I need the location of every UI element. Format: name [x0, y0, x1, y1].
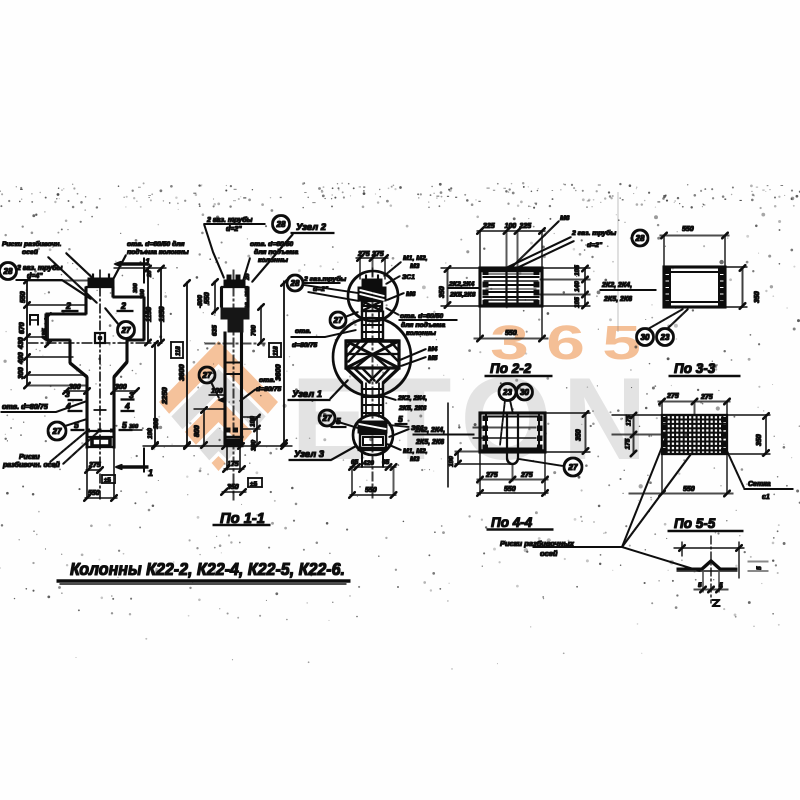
- svg-text:d=2": d=2": [587, 242, 603, 249]
- svg-text:Риски: Риски: [19, 454, 40, 461]
- svg-text:550: 550: [682, 226, 694, 233]
- cage upper hatched block uzel2: [358, 287, 386, 301]
- cage centerline: [372, 268, 374, 500]
- view2 centerline: [233, 270, 235, 500]
- view1 top cap journal: [88, 278, 114, 287]
- svg-text:±5: ±5: [104, 477, 111, 484]
- svg-text:5: 5: [122, 420, 127, 430]
- svg-text:отв. d=60/50 для: отв. d=60/50 для: [127, 240, 185, 248]
- svg-text:1: 1: [148, 468, 153, 478]
- svg-text:100: 100: [245, 302, 251, 312]
- svg-text:d=80/75: d=80/75: [256, 386, 281, 393]
- view1 callout circle 28: [0, 263, 17, 280]
- section 5-5 bottom dim 550: [629, 493, 733, 495]
- section 2-2 left dim 350: [447, 268, 449, 306]
- svg-text:28: 28: [290, 279, 300, 288]
- cage corbel box: [346, 341, 399, 368]
- view1 callout circle 27 head: [118, 322, 135, 339]
- svg-text:350: 350: [576, 429, 583, 441]
- view1 section mark 1 top: [122, 263, 148, 265]
- svg-text:100: 100: [448, 456, 455, 467]
- svg-text:ЗС1: ЗС1: [402, 274, 415, 281]
- leader fan to sections: [622, 437, 666, 547]
- section 2-2 rebar squares: [483, 270, 488, 275]
- svg-text:550: 550: [204, 292, 211, 304]
- svg-text:3600: 3600: [177, 363, 186, 381]
- svg-text:Сетка: Сетка: [748, 481, 771, 488]
- svg-text:400: 400: [18, 352, 25, 365]
- section 4-4 leader lines from labels: [473, 427, 536, 429]
- section 2-2 top dims: [477, 230, 545, 232]
- section 4-4 right dim 350: [585, 413, 587, 452]
- section 3-3 rebar squares: [666, 269, 671, 274]
- svg-text:100: 100: [505, 223, 517, 230]
- svg-text:разбивочн. осей: разбивочн. осей: [2, 461, 61, 469]
- svg-text:23: 23: [502, 388, 512, 397]
- svg-text:27: 27: [121, 326, 131, 335]
- svg-text:М1, М2,: М1, М2,: [403, 448, 428, 455]
- svg-text:550: 550: [683, 486, 695, 493]
- svg-text:23: 23: [660, 333, 670, 342]
- svg-text:d=2": d=2": [313, 286, 329, 293]
- section 4-4 callout circle 27: [564, 458, 582, 476]
- svg-text:28: 28: [276, 220, 286, 229]
- svg-text:d=2": d=2": [226, 226, 242, 233]
- view1 tolerance box: [102, 475, 115, 483]
- svg-text:2250: 2250: [160, 386, 169, 405]
- svg-text:отв. d=80/75: отв. d=80/75: [2, 402, 49, 411]
- section 5-5 mesh box: [662, 415, 727, 454]
- svg-text:2К2, 2К4,: 2К2, 2К4,: [414, 427, 445, 434]
- svg-text:275: 275: [520, 472, 533, 479]
- svg-text:100: 100: [140, 289, 146, 299]
- svg-text:65: 65: [382, 459, 390, 466]
- svg-text:27: 27: [52, 427, 62, 436]
- view1 flare to shaft: [69, 340, 71, 363]
- svg-text:20: 20: [147, 270, 153, 278]
- svg-text:118: 118: [274, 346, 280, 356]
- svg-text:колонны: колонны: [258, 257, 288, 264]
- svg-text:27: 27: [202, 371, 212, 380]
- svg-text:28: 28: [635, 234, 645, 243]
- svg-text:Узел 3: Узел 3: [294, 449, 325, 460]
- svg-text:550: 550: [365, 487, 377, 494]
- scan noise speckles: [0, 182, 800, 670]
- svg-text:4: 4: [124, 401, 130, 411]
- section 2-2 box: [480, 268, 542, 306]
- cage callout circle 27 lower: [319, 410, 335, 426]
- svg-text:700: 700: [251, 325, 258, 336]
- svg-text:420: 420: [362, 460, 374, 467]
- cage bottom: [361, 448, 363, 467]
- svg-text:1: 1: [145, 257, 150, 267]
- svg-text:2К2,2К4: 2К2,2К4: [448, 281, 475, 288]
- svg-text:для подъема: для подъема: [254, 248, 298, 256]
- section 4-4 box: [480, 413, 545, 452]
- svg-text:100: 100: [211, 388, 223, 395]
- section 4-4 callout circles 23 30: [499, 384, 516, 401]
- view2 top cap journal: [224, 280, 245, 287]
- svg-text:±5: ±5: [250, 481, 258, 488]
- svg-text:2 газ. трубы: 2 газ. трубы: [571, 229, 616, 237]
- svg-text:М6: М6: [406, 291, 416, 298]
- svg-text:300: 300: [153, 418, 160, 429]
- svg-text:отв. d=60/50: отв. d=60/50: [400, 313, 443, 320]
- view1 section mark 1 bottom: [123, 466, 148, 468]
- section 5-5 mesh grid: [666, 415, 668, 454]
- svg-text:300: 300: [133, 283, 139, 293]
- svg-text:3: 3: [65, 389, 70, 399]
- view2 right dim chain 3600: [283, 281, 285, 444]
- svg-text:550: 550: [20, 291, 27, 303]
- view1 head outline: [85, 287, 87, 314]
- svg-text:30: 30: [641, 333, 650, 342]
- svg-text:225: 225: [519, 223, 532, 230]
- view2 tolerance box: [248, 478, 262, 487]
- svg-text:100: 100: [250, 416, 257, 427]
- view1 inner dim 435: [47, 314, 49, 345]
- svg-text:300: 300: [18, 367, 25, 379]
- view2 fixture marks: [226, 428, 230, 432]
- svg-text:отв.: отв.: [295, 328, 311, 335]
- svg-text:175: 175: [625, 438, 632, 449]
- svg-text:М6: М6: [560, 215, 570, 222]
- svg-text:550: 550: [505, 330, 517, 337]
- view1 centerline: [99, 270, 101, 499]
- cage lower hatched block uzel3: [358, 421, 387, 433]
- svg-text:5: 5: [336, 416, 341, 426]
- svg-text:350: 350: [227, 484, 239, 491]
- section 3-3 right dim 350: [742, 267, 744, 307]
- svg-text:2: 2: [65, 301, 71, 311]
- view1 base journal: [89, 430, 112, 432]
- svg-text:М4: М4: [428, 346, 438, 353]
- svg-text:275: 275: [700, 394, 713, 401]
- view2 base journal: [224, 436, 243, 438]
- svg-text:2К5, 2К6: 2К5, 2К6: [415, 439, 444, 446]
- corner detail centerline: [710, 536, 712, 603]
- svg-text:М5: М5: [428, 355, 438, 362]
- svg-text:140: 140: [574, 281, 581, 292]
- section 4-4 left dim 100: [457, 452, 459, 465]
- svg-text:5: 5: [756, 566, 763, 570]
- svg-text:350: 350: [439, 286, 446, 298]
- svg-text:2К2, 2К4,: 2К2, 2К4,: [601, 282, 632, 289]
- view2 head outline: [220, 287, 222, 307]
- view2 crane console hatched section: [221, 308, 249, 319]
- svg-text:430: 430: [18, 337, 25, 350]
- view1 callout circle 27 lower left: [48, 422, 66, 440]
- svg-text:300: 300: [129, 424, 138, 430]
- section 4-4 rebar squares: [483, 416, 488, 421]
- svg-text:подъема колонны: подъема колонны: [127, 248, 189, 256]
- svg-text:225: 225: [482, 223, 495, 230]
- cage callout circle 27 upper: [330, 312, 346, 328]
- cage top cap journal: [362, 279, 382, 287]
- section 4-4 bottom dims 275 275: [479, 452, 481, 495]
- corner detail z mark: [712, 600, 720, 606]
- svg-text:4: 4: [65, 401, 71, 411]
- svg-text:2 газ.трубы: 2 газ.трубы: [303, 275, 346, 283]
- svg-text:275: 275: [666, 393, 679, 400]
- view2 crane level line: [205, 343, 265, 345]
- view1 center pad at crane level: [95, 333, 105, 343]
- svg-text:20: 20: [245, 273, 251, 281]
- svg-text:Узел 2: Узел 2: [296, 222, 327, 233]
- svg-text:5: 5: [398, 414, 403, 424]
- corner detail top dim: [674, 547, 744, 549]
- svg-text:2: 2: [120, 301, 126, 311]
- svg-text:колонны: колонны: [406, 330, 436, 337]
- section 4-4 lifting loop: [506, 413, 508, 458]
- svg-text:2 газ. трубы: 2 газ. трубы: [206, 216, 252, 224]
- section 4-4 left extension line: [447, 403, 449, 487]
- svg-text:435: 435: [42, 328, 49, 341]
- svg-text:635: 635: [212, 325, 219, 336]
- svg-text:М3: М3: [410, 263, 420, 270]
- svg-text:М3: М3: [410, 456, 420, 463]
- view1 alignment riska marks: [87, 429, 90, 432]
- section 2-2 right dims: [584, 268, 586, 306]
- view1 right dim chains: [147, 268, 149, 343]
- svg-text:d=4": d=4": [27, 273, 43, 280]
- svg-text:275: 275: [357, 251, 370, 258]
- svg-text:670: 670: [19, 322, 26, 334]
- svg-text:118: 118: [176, 346, 182, 356]
- view1 right crane console: [113, 296, 144, 298]
- svg-text:с1: с1: [762, 494, 770, 501]
- svg-text:осей: осей: [540, 549, 558, 558]
- view1 shaft: [86, 377, 88, 448]
- svg-text:2К2, 2К4,: 2К2, 2К4,: [397, 395, 427, 402]
- svg-text:300: 300: [69, 384, 81, 391]
- svg-text:30: 30: [520, 388, 529, 397]
- section 4-4 bottom dim 550: [477, 492, 548, 494]
- cage mid shaft: [361, 383, 363, 417]
- svg-text:Колонны К22-2, К22-4, К22-5,: Колонны К22-2, К22-4, К22-5, К22-6.: [70, 559, 345, 579]
- uzel detail circles: [348, 271, 398, 321]
- svg-text:для подъема: для подъема: [401, 321, 445, 329]
- svg-text:175: 175: [626, 415, 633, 426]
- svg-text:1350: 1350: [159, 306, 166, 322]
- section 3-3 box: [664, 267, 725, 307]
- svg-text:28: 28: [3, 267, 13, 276]
- svg-text:d=80/75: d=80/75: [292, 342, 317, 349]
- section 2-2 rebar lines: [483, 276, 539, 278]
- svg-text:-800: -800: [197, 295, 204, 308]
- svg-text:2К5, 2К6: 2К5, 2К6: [398, 405, 426, 412]
- svg-text:3: 3: [129, 390, 134, 400]
- svg-text:По 3-3: По 3-3: [674, 361, 716, 376]
- svg-text:По 4-4: По 4-4: [491, 515, 533, 530]
- svg-text:М1, М2,: М1, М2,: [403, 255, 428, 262]
- corner detail profile: [677, 561, 737, 569]
- svg-text:Узел 1: Узел 1: [292, 389, 322, 400]
- cage upper shaft: [361, 311, 363, 341]
- view2 callout circle 27: [199, 367, 215, 383]
- svg-text:По 5-5: По 5-5: [674, 516, 716, 531]
- svg-text:27: 27: [322, 414, 332, 423]
- svg-text:осей: осей: [22, 248, 39, 256]
- section 5-5 left dims 175 175: [633, 415, 635, 454]
- section 3-3 callout circles 30 23: [637, 329, 654, 346]
- svg-text:280: 280: [245, 287, 251, 298]
- section 5-5 right dim 350: [765, 415, 767, 454]
- svg-text:2 газ. трубы: 2 газ. трубы: [16, 264, 62, 272]
- svg-text:105: 105: [574, 265, 581, 276]
- svg-text:1150: 1150: [146, 307, 153, 322]
- svg-text:3600: 3600: [274, 363, 283, 381]
- section 2-2 bottom dim 550: [479, 306, 481, 339]
- svg-text:Риски разбивочн.: Риски разбивочн.: [2, 240, 61, 248]
- svg-text:550: 550: [504, 486, 516, 493]
- cage left gas pipe label: [287, 275, 303, 291]
- svg-text:27: 27: [333, 316, 343, 325]
- cage taper: [346, 368, 362, 383]
- svg-text:По 2-2: По 2-2: [490, 361, 532, 376]
- view1 mid height dim chains: [154, 343, 156, 446]
- view2 shaft: [224, 332, 226, 446]
- view1 left dim chain: [26, 280, 28, 386]
- svg-text:27: 27: [568, 463, 578, 472]
- svg-text:350: 350: [754, 291, 761, 303]
- svg-text:5: 5: [698, 582, 702, 589]
- svg-text:800: 800: [194, 425, 201, 437]
- svg-text:отв. d=60/50: отв. d=60/50: [250, 241, 293, 248]
- scan crease line: [617, 192, 619, 332]
- view1 level mark symbol: [30, 315, 38, 325]
- view1 crane level centerline: [28, 342, 162, 344]
- view1 left crane console: [46, 313, 86, 315]
- svg-text:350: 350: [756, 434, 763, 446]
- svg-text:5: 5: [74, 420, 79, 430]
- svg-text:105: 105: [574, 297, 581, 308]
- svg-text:2К5,2К6: 2К5,2К6: [449, 292, 476, 299]
- section 5-5 rebar squares: [663, 418, 667, 422]
- svg-text:2К5, 2К6: 2К5, 2К6: [603, 296, 632, 303]
- callout circle 28 top: [273, 216, 290, 233]
- section 2-2 gas pipes: [506, 231, 508, 268]
- svg-text:275: 275: [485, 472, 498, 479]
